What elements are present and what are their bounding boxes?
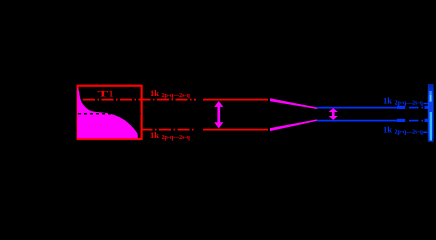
svg-text:T: T: [98, 89, 109, 98]
svg-text:2p-q—2s-q: 2p-q—2s-q: [395, 101, 424, 107]
svg-text:1k: 1k: [150, 130, 159, 140]
svg-text:1k: 1k: [150, 88, 159, 98]
svg-text:1k: 1k: [383, 95, 392, 105]
svg-text:1k: 1k: [383, 124, 392, 134]
svg-text:2p-q—2s-q: 2p-q—2s-q: [162, 135, 191, 141]
svg-text:1: 1: [109, 90, 113, 99]
svg-text:2p-q—2s-q: 2p-q—2s-q: [395, 130, 424, 136]
svg-text:2p-q—2s-q: 2p-q—2s-q: [162, 93, 191, 99]
